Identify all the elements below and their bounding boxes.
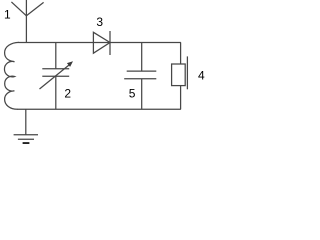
- wire variable-capacitor branch lower: [55, 76, 57, 109]
- capacitor C5: [124, 71, 156, 79]
- antenna A1: [11, 0, 43, 42]
- svg-text:4: 4: [198, 68, 205, 82]
- wire top horizontal: [19, 42, 181, 44]
- variable capacitor C2: [40, 61, 74, 89]
- wire bottom horizontal: [17, 108, 181, 110]
- earphone B4: [172, 56, 188, 89]
- wire earphone branch lower: [180, 86, 182, 110]
- wire variable-capacitor branch upper: [55, 42, 57, 68]
- diode D3: [93, 31, 110, 55]
- wire capacitor branch lower: [141, 79, 143, 110]
- svg-text:1: 1: [4, 7, 11, 21]
- svg-text:3: 3: [96, 15, 103, 29]
- svg-text:5: 5: [129, 87, 136, 101]
- wire earphone branch upper: [180, 42, 182, 64]
- inductor L1 (coil): [4, 42, 19, 109]
- wire capacitor branch upper: [141, 42, 143, 71]
- wire ground stem: [25, 109, 27, 134]
- ground: [14, 135, 38, 143]
- svg-text:2: 2: [64, 87, 71, 101]
